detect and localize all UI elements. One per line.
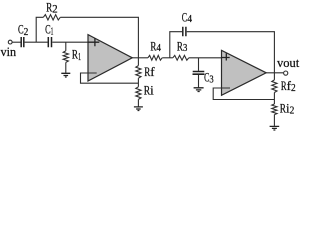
svg-text:R4: R4 xyxy=(150,38,161,54)
svg-text:Rf2: Rf2 xyxy=(281,78,296,94)
svg-text:C2: C2 xyxy=(18,22,28,38)
svg-text:C3: C3 xyxy=(204,70,214,86)
svg-text:R1: R1 xyxy=(72,47,81,63)
svg-text:Ri2: Ri2 xyxy=(280,100,295,116)
svg-text:R2: R2 xyxy=(46,0,58,16)
svg-text:vin: vin xyxy=(1,44,17,59)
svg-text:R3: R3 xyxy=(177,38,188,54)
svg-text:Ri: Ri xyxy=(144,83,154,98)
svg-text:Rf: Rf xyxy=(144,64,155,79)
svg-text:vout: vout xyxy=(277,55,300,70)
svg-text:C1: C1 xyxy=(45,22,53,38)
svg-text:C4: C4 xyxy=(182,10,193,26)
